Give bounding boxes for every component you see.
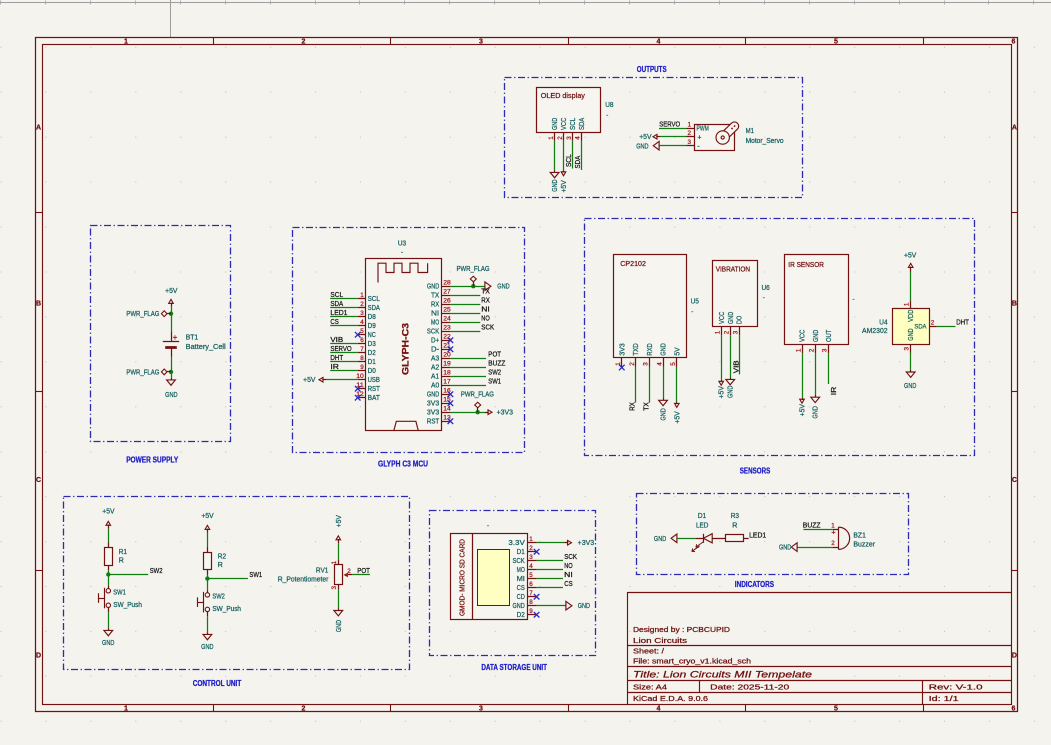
svg-text:D1: D1 [368,359,376,366]
svg-text:9: 9 [360,364,364,371]
svg-text:KiCad E.D.A. 9.0.6: KiCad E.D.A. 9.0.6 [633,694,708,703]
svg-text:LED1: LED1 [330,308,347,317]
svg-text:GND: GND [661,343,668,355]
svg-text:RST: RST [368,386,381,393]
svg-text:CP2102: CP2102 [620,261,646,268]
svg-text:+5V: +5V [303,377,316,384]
svg-text:2: 2 [831,540,835,547]
svg-text:D-: D- [431,347,439,354]
svg-text:D9: D9 [368,323,376,330]
svg-text:RX: RX [628,402,637,411]
svg-text:2: 2 [302,705,306,712]
svg-text:23: 23 [443,325,451,332]
svg-text:U5: U5 [691,298,699,305]
svg-text:3: 3 [822,348,829,352]
svg-text:+5V: +5V [904,252,917,259]
svg-text:GND: GND [661,408,668,420]
svg-text:8: 8 [529,599,533,606]
svg-text:SW1: SW1 [488,377,501,386]
svg-text:BT1: BT1 [186,335,199,342]
svg-text:SDA: SDA [914,323,926,330]
svg-text:+5V: +5V [639,134,652,141]
svg-text:3V3: 3V3 [619,343,626,355]
svg-text:4: 4 [360,319,364,326]
svg-text:2: 2 [724,330,731,334]
svg-text:BZ1: BZ1 [853,533,866,540]
svg-text:Motor_Servo: Motor_Servo [746,138,784,145]
svg-text:3.3V: 3.3V [508,540,525,547]
svg-text:IR SENSOR: IR SENSOR [788,262,824,269]
svg-text:5: 5 [670,362,677,366]
svg-text:U8: U8 [605,102,613,109]
svg-text:D1: D1 [698,513,706,520]
svg-text:CD: CD [517,594,525,601]
svg-text:SERVO: SERVO [659,119,680,128]
svg-text:3: 3 [643,362,650,366]
svg-text:-: - [401,249,403,256]
svg-text:OUT: OUT [826,329,833,342]
svg-text:D: D [1012,652,1017,659]
svg-text:MI: MI [517,576,525,583]
svg-text:5: 5 [834,39,838,46]
svg-text:SDA: SDA [579,117,586,130]
svg-text:BUZZ: BUZZ [803,521,821,530]
svg-text:U6: U6 [762,285,770,292]
svg-text:2: 2 [529,545,533,552]
svg-text:PWR_FLAG: PWR_FLAG [126,311,159,318]
svg-text:DHT: DHT [956,317,969,326]
svg-text:M1: M1 [746,128,754,135]
svg-text:14: 14 [443,406,451,413]
svg-text:GND: GND [654,536,666,543]
svg-text:SDA: SDA [330,299,343,308]
svg-text:1: 1 [124,39,128,46]
svg-text:-: - [606,113,608,119]
svg-text:DATA STORAGE UNIT: DATA STORAGE UNIT [481,663,547,672]
svg-text:GND: GND [427,284,439,291]
svg-text:RX: RX [431,302,440,309]
svg-text:Date: 2025-11-20: Date: 2025-11-20 [710,682,789,691]
svg-text:2: 2 [360,301,364,308]
svg-text:25: 25 [443,307,451,314]
svg-text:A: A [1012,124,1017,131]
svg-text:Id: 1/1: Id: 1/1 [929,694,959,703]
svg-text:R_Potentiometer: R_Potentiometer [278,576,329,583]
svg-text:GND: GND [636,143,648,150]
svg-text:OUTPUTS: OUTPUTS [637,65,667,74]
svg-text:GND: GND [336,620,343,632]
svg-text:27: 27 [443,289,451,296]
svg-text:MO: MO [517,567,526,574]
svg-text:3V3: 3V3 [427,410,439,417]
svg-text:LED1: LED1 [749,531,766,540]
svg-text:2: 2 [302,39,306,46]
svg-text:D8: D8 [368,314,376,321]
svg-text:TX: TX [431,293,440,300]
svg-text:20: 20 [443,352,451,359]
svg-text:3: 3 [360,310,364,317]
svg-text:1: 1 [360,292,364,299]
svg-text:2: 2 [557,136,564,140]
svg-text:5: 5 [529,572,533,579]
svg-text:1: 1 [715,330,722,334]
svg-text:GND: GND [552,118,559,130]
svg-text:4: 4 [657,39,661,46]
svg-text:B: B [36,300,41,307]
svg-text:SW_Push: SW_Push [113,602,142,609]
svg-text:SDA: SDA [573,156,582,169]
svg-text:A: A [36,124,41,131]
svg-text:GLYPH C3 MCU: GLYPH C3 MCU [378,459,428,468]
svg-text:1: 1 [331,560,338,564]
svg-text:GLYPH-C3: GLYPH-C3 [401,323,411,375]
svg-text:GND: GND [165,392,177,399]
svg-text:-: - [691,309,693,315]
svg-text:VIBRATION: VIBRATION [716,266,750,273]
svg-text:3V3: 3V3 [427,401,439,408]
svg-text:SCL: SCL [564,154,573,167]
svg-text:18: 18 [443,370,451,377]
svg-text:D2: D2 [517,612,525,619]
svg-text:VCC: VCC [800,330,807,342]
svg-text:U4: U4 [879,319,887,326]
svg-text:5: 5 [360,328,364,335]
svg-text:GND: GND [904,383,916,390]
svg-text:IR: IR [829,387,838,396]
svg-text:2: 2 [687,130,691,137]
svg-text:+3V3: +3V3 [497,410,514,417]
svg-text:26: 26 [443,298,451,305]
svg-text:VCC: VCC [561,118,568,130]
svg-text:1: 1 [124,705,128,712]
svg-text:-: - [853,297,855,303]
svg-text:1: 1 [687,121,691,128]
svg-text:D+: D+ [431,338,439,345]
svg-text:+5V: +5V [102,509,115,516]
svg-text:5V: 5V [674,347,681,356]
svg-text:PWR_FLAG: PWR_FLAG [457,266,490,273]
svg-text:+3V3: +3V3 [578,540,595,547]
svg-text:TX: TX [641,402,650,411]
svg-text:24: 24 [443,316,451,323]
svg-text:GND: GND [728,312,735,324]
svg-text:A2: A2 [431,365,439,372]
svg-text:SW2: SW2 [150,566,163,575]
svg-text:R3: R3 [731,513,739,520]
svg-text:6: 6 [1012,39,1016,46]
svg-text:POT: POT [488,350,501,359]
svg-text:6: 6 [1012,705,1016,712]
svg-text:1: 1 [904,302,911,306]
svg-text:D2: D2 [368,350,376,357]
svg-text:R: R [732,523,737,530]
svg-text:+: + [831,527,836,536]
svg-text:+5V: +5V [165,288,178,295]
svg-text:Size: A4: Size: A4 [633,682,667,691]
svg-text:1: 1 [529,536,533,543]
svg-text:RXD: RXD [647,343,654,355]
svg-text:19: 19 [443,361,451,368]
svg-text:MO: MO [431,320,440,327]
svg-text:GND: GND [552,179,559,191]
svg-text:DHT: DHT [330,353,343,362]
svg-text:3: 3 [479,705,483,712]
svg-text:C: C [36,477,41,484]
svg-text:R: R [218,562,223,569]
svg-text:4: 4 [657,705,661,712]
svg-text:SW2: SW2 [212,594,225,601]
svg-text:SCL: SCL [570,118,577,130]
svg-text:POT: POT [357,566,370,575]
svg-text:TX: TX [481,287,490,296]
svg-text:NI: NI [564,570,573,579]
svg-text:NI: NI [431,311,439,318]
svg-text:GND: GND [728,386,735,398]
svg-text:D3: D3 [368,341,376,348]
svg-text:OLED display: OLED display [541,93,586,100]
svg-text:2: 2 [629,362,636,366]
svg-text:SCK: SCK [481,323,494,332]
svg-text:GND: GND [513,603,525,610]
svg-text:LED: LED [696,523,709,530]
svg-text:28: 28 [443,280,451,287]
svg-text:Lion Circuits: Lion Circuits [633,636,688,645]
svg-text:9: 9 [529,608,533,615]
svg-text:USB: USB [368,377,381,384]
svg-text:+5V: +5V [719,386,726,399]
svg-text:3: 3 [904,346,911,350]
svg-text:Designed by : PCBCUPID: Designed by : PCBCUPID [633,625,730,634]
svg-text:VIB: VIB [330,335,343,344]
svg-text:3: 3 [479,39,483,46]
svg-text:CS: CS [564,579,573,588]
svg-text:+5V: +5V [336,515,343,528]
svg-text:2: 2 [809,348,816,352]
svg-text:3: 3 [566,136,573,140]
svg-text:SW2: SW2 [488,368,501,377]
svg-text:RST: RST [427,419,440,426]
svg-text:Sheet: /: Sheet: / [633,647,664,656]
svg-text:CS: CS [330,317,339,326]
svg-text:SW_Push: SW_Push [212,606,241,613]
svg-text:R: R [119,557,124,564]
svg-text:INDICATORS: INDICATORS [735,580,774,589]
svg-text:BAT: BAT [368,395,381,402]
svg-text:GND: GND [497,284,509,291]
svg-text:-: - [697,143,699,150]
svg-text:A1: A1 [431,374,439,381]
svg-text:-: - [487,524,489,530]
svg-text:8: 8 [360,355,364,362]
svg-text:SCK: SCK [427,329,440,336]
svg-text:VCC: VCC [719,312,726,324]
svg-text:6: 6 [529,581,533,588]
svg-text:R1: R1 [119,549,127,556]
svg-text:CONTROL UNIT: CONTROL UNIT [193,679,242,688]
svg-text:SCL: SCL [368,296,380,303]
svg-text:2: 2 [931,319,935,326]
svg-text:PWR_FLAG: PWR_FLAG [126,369,159,376]
svg-text:C: C [1012,477,1017,484]
svg-text:U3: U3 [398,241,406,248]
svg-text:SCK: SCK [564,552,577,561]
svg-text:2: 2 [347,568,351,575]
svg-text:GND: GND [427,392,439,399]
svg-text:Rev: V-1.0: Rev: V-1.0 [929,682,983,691]
svg-text:Title: Lion Circuits MII Tempe: Title: Lion Circuits MII Tempelate [633,670,812,680]
svg-text:SERVO: SERVO [330,344,352,353]
svg-text:SCL: SCL [330,290,343,299]
svg-text:+: + [173,333,178,342]
svg-text:SDA: SDA [368,305,381,312]
svg-text:3: 3 [331,585,338,589]
svg-text:+5V: +5V [561,180,568,193]
svg-text:17: 17 [443,379,451,386]
svg-text:1: 1 [548,136,555,140]
svg-text:7: 7 [529,590,533,597]
svg-text:CS: CS [517,585,526,592]
svg-text:D0: D0 [368,368,376,375]
svg-text:GND: GND [201,644,213,651]
svg-text:PWM: PWM [697,126,709,133]
svg-text:PWR_FLAG: PWR_FLAG [461,392,494,399]
svg-text:SCK: SCK [513,558,526,565]
svg-text:RV1: RV1 [316,568,329,575]
svg-text:GMOD- MICRO SD CARD: GMOD- MICRO SD CARD [459,539,466,616]
svg-text:AM2302: AM2302 [862,328,888,335]
svg-text:RX: RX [481,296,490,305]
svg-text:6: 6 [360,337,364,344]
svg-text:3: 3 [733,330,740,334]
svg-text:TXD: TXD [633,343,640,355]
svg-text:+: + [697,135,701,142]
svg-text:7: 7 [360,346,364,353]
svg-text:VDD: VDD [908,310,915,322]
svg-text:+5V: +5V [800,404,807,417]
svg-text:5: 5 [834,705,838,712]
svg-text:Battery_Cell: Battery_Cell [186,344,226,351]
svg-text:A0: A0 [431,383,439,390]
svg-text:B: B [1012,300,1017,307]
svg-text:A3: A3 [431,356,439,363]
svg-text:POWER SUPPLY: POWER SUPPLY [126,455,179,464]
svg-text:GND: GND [578,603,590,610]
svg-text:VIB: VIB [731,360,740,373]
svg-text:D: D [36,652,41,659]
svg-text:NO: NO [481,314,490,323]
svg-text:GND: GND [779,545,791,552]
svg-text:NC: NC [368,332,376,339]
svg-text:4: 4 [656,362,663,366]
svg-text:GND: GND [102,640,114,647]
svg-text:NO: NO [564,561,573,570]
svg-text:D1: D1 [517,549,525,556]
svg-text:1: 1 [795,348,802,352]
svg-text:3: 3 [529,554,533,561]
svg-text:DO: DO [737,315,744,324]
svg-text:3: 3 [687,139,691,146]
svg-text:File: smart_cryo_v1.kicad_sch: File: smart_cryo_v1.kicad_sch [633,657,751,666]
svg-text:-: - [763,296,765,302]
svg-text:+5V: +5V [201,513,214,520]
svg-text:4: 4 [529,563,533,570]
svg-text:NI: NI [481,305,490,314]
svg-text:SENSORS: SENSORS [740,466,771,475]
svg-text:4: 4 [575,136,582,140]
svg-text:GND: GND [813,406,820,418]
svg-text:Buzzer: Buzzer [853,542,875,549]
svg-text:IR: IR [330,362,339,371]
svg-text:R2: R2 [218,553,226,560]
svg-text:SW1: SW1 [113,589,126,596]
svg-text:+5V: +5V [674,411,681,424]
svg-text:BUZZ: BUZZ [488,359,506,368]
svg-text:SW1: SW1 [249,570,262,579]
svg-text:GND: GND [813,330,820,342]
